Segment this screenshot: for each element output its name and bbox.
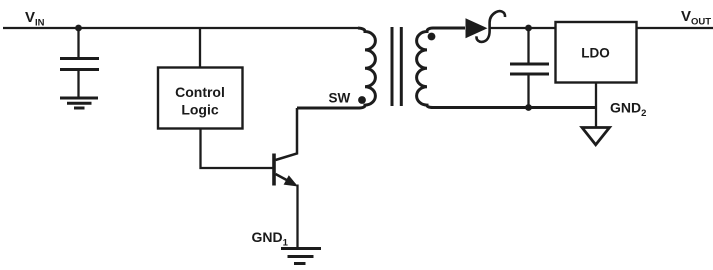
svg-text:Logic: Logic: [181, 102, 219, 118]
node output cap top junction: [525, 25, 532, 32]
capacitor C2 output: [510, 64, 549, 74]
wire rail to control logic: [199, 28, 201, 68]
wire diode to LDO: [490, 27, 556, 29]
transistor Q1 collector: [276, 108, 298, 160]
svg-text:GND1: GND1: [252, 229, 289, 249]
wire LDO ground pin: [595, 83, 597, 128]
node VIN junction dot: [75, 25, 82, 32]
transformer T1 core: [392, 27, 401, 106]
node output cap bottom junction: [525, 104, 532, 111]
wire SW node: [297, 107, 360, 109]
node SW polarity dot: [358, 96, 366, 104]
svg-text:Control: Control: [175, 84, 225, 100]
wire control logic to base: [201, 129, 273, 169]
wire output cap bottom lead: [527, 75, 529, 108]
transistor Q1 base bar: [272, 154, 276, 186]
capacitor C1 input: [60, 59, 99, 70]
wire VOUT: [637, 27, 713, 29]
node secondary polarity dot: [428, 33, 436, 41]
ground input: [60, 98, 98, 108]
transistor Q1 emitter: [276, 174, 296, 185]
inductor T1 primary winding: [297, 28, 375, 108]
svg-text:VOUT: VOUT: [681, 8, 711, 28]
ground GND2 triangle: [582, 128, 610, 145]
svg-text:LDO: LDO: [581, 46, 610, 61]
ground GND1: [281, 249, 321, 264]
svg-text:GND2: GND2: [610, 100, 646, 120]
wire output cap top lead: [527, 28, 529, 63]
inductor T1 secondary winding: [417, 28, 596, 108]
transistor Q1 emitter arrow: [284, 175, 298, 186]
op-amp U2 LDO box: [556, 22, 637, 83]
wire input cap lead: [77, 28, 79, 58]
diode D1 triangle: [466, 18, 488, 38]
wire emitter to ground: [296, 185, 298, 249]
wire VIN top rail: [3, 27, 358, 29]
svg-text:SW: SW: [329, 91, 351, 106]
wire cap to ground: [77, 71, 79, 98]
op-amp U1 Control Logic box: [158, 68, 243, 129]
svg-text:VIN: VIN: [25, 9, 45, 29]
diode D1 schottky cathode: [477, 11, 506, 42]
